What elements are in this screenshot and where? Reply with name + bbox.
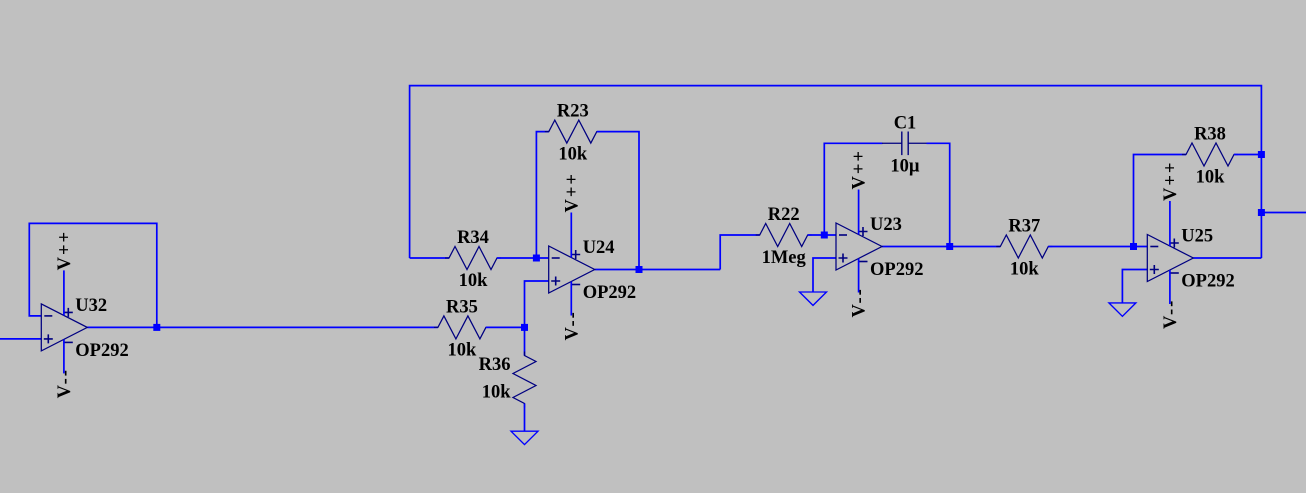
node U25 -in node	[1130, 243, 1137, 250]
wire feedback to R34	[410, 257, 449, 259]
wire U23 -in up to C1	[824, 143, 882, 235]
op-amp U32 V- pin wire	[63, 339, 65, 373]
node U23 -in node	[821, 232, 828, 239]
svg-text:R37: R37	[1008, 217, 1040, 237]
svg-text:U23: U23	[870, 215, 902, 235]
node U24 output junction	[636, 266, 643, 273]
node U23 output junction	[946, 243, 953, 250]
svg-text:U25: U25	[1181, 227, 1213, 247]
svg-text:V--: V--	[562, 310, 582, 340]
resistor R35	[434, 316, 490, 339]
resistor R36	[513, 352, 536, 408]
wire U24 output step up to R22	[720, 235, 760, 270]
svg-text:V--: V--	[1161, 299, 1181, 329]
svg-text:10k: 10k	[448, 340, 478, 360]
wire input to U32 +in	[0, 338, 41, 340]
svg-text:R35: R35	[446, 297, 478, 317]
wire U24 output	[595, 269, 721, 271]
wire U25 -in up to R38	[1134, 155, 1187, 247]
svg-text:V++: V++	[562, 172, 582, 212]
resistor R37	[996, 235, 1052, 258]
svg-text:R38: R38	[1194, 125, 1226, 145]
op-amp U24 V- pin wire	[570, 282, 572, 316]
svg-text:1Meg: 1Meg	[762, 248, 807, 268]
wire output to right edge	[1261, 212, 1306, 214]
wire R22 to U23 -in	[808, 234, 836, 236]
wire node to R36	[524, 327, 526, 355]
wire R34 to U24 -in	[497, 257, 549, 259]
resistor R34	[445, 247, 501, 270]
op-amp U25	[1147, 235, 1193, 282]
wire U23 +in to ground	[813, 258, 836, 292]
wire U25 output	[1193, 257, 1261, 259]
op-amp U23 V- pin wire	[858, 259, 860, 293]
wire R23 to U24 output	[597, 132, 639, 270]
resistor R38	[1182, 143, 1238, 166]
op-amp U23 V+ pin wire	[858, 190, 860, 235]
svg-text:OP292: OP292	[583, 283, 636, 303]
svg-text:R22: R22	[768, 205, 800, 225]
svg-text:R36: R36	[479, 355, 511, 375]
svg-text:10k: 10k	[558, 145, 588, 165]
wire U32 output to -in feedback loop	[29, 223, 157, 327]
ground below R36	[511, 431, 538, 444]
op-amp U24	[549, 246, 595, 293]
wire global feedback from output to R34	[410, 86, 1262, 258]
wire U23 output to R37	[882, 246, 1000, 248]
svg-text:10k: 10k	[482, 383, 512, 403]
ground at U23 +in	[800, 292, 827, 305]
svg-text:U24: U24	[583, 238, 615, 258]
svg-text:V++: V++	[850, 149, 870, 189]
resistor R22	[756, 224, 812, 247]
wire C1 to U23 output	[927, 143, 950, 246]
node R38/feedback junction	[1258, 151, 1265, 158]
svg-text:10k: 10k	[459, 271, 489, 291]
svg-text:R34: R34	[457, 228, 489, 248]
svg-text:OP292: OP292	[870, 260, 923, 280]
wire U25 +in to ground	[1122, 270, 1147, 303]
wire R35 to node	[486, 326, 525, 328]
svg-text:R23: R23	[557, 102, 589, 122]
node R35/R36/U24 +in node	[521, 324, 528, 331]
op-amp U24 V+ pin wire	[570, 213, 572, 258]
svg-text:C1: C1	[894, 113, 917, 133]
svg-text:U32: U32	[75, 296, 107, 316]
wire U24 +in to R35/R36 node	[525, 281, 549, 327]
node output junction	[1258, 209, 1265, 216]
node U32 output junction	[153, 324, 160, 331]
op-amp U25 V- pin wire	[1169, 270, 1171, 304]
svg-text:10µ: 10µ	[890, 156, 920, 176]
svg-text:V++: V++	[55, 230, 75, 270]
wire U32 output to R35	[87, 326, 438, 328]
svg-text:10k: 10k	[1010, 260, 1040, 280]
svg-text:V++: V++	[1161, 161, 1181, 201]
wire R36 to ground	[524, 404, 526, 432]
capacitor C1	[901, 132, 903, 156]
ground at U25 +in	[1109, 303, 1136, 316]
op-amp U32	[41, 304, 87, 351]
svg-text:10k: 10k	[1196, 168, 1226, 188]
svg-text:V--: V--	[850, 287, 870, 317]
wire U24 -in up to R23	[536, 132, 548, 258]
svg-text:V--: V--	[55, 368, 75, 398]
wire R38 to output column	[1234, 154, 1261, 156]
op-amp U23	[836, 223, 882, 270]
op-amp U32 V+ pin wire	[63, 270, 65, 315]
svg-text:OP292: OP292	[75, 341, 128, 361]
wire R37 to U25 -in	[1048, 246, 1147, 248]
svg-text:OP292: OP292	[1181, 271, 1234, 291]
node U24 -in node	[533, 255, 540, 262]
op-amp U25 V+ pin wire	[1169, 201, 1171, 246]
resistor R23	[545, 120, 601, 143]
